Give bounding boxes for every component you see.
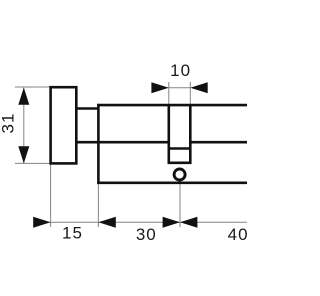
body mid line right of cam <box>190 141 247 144</box>
dimension extension line cam-left <box>168 82 170 105</box>
arrowhead 31 down <box>18 146 29 163</box>
dimension line bottom <box>34 221 247 223</box>
cylinder body bottom edge <box>97 182 247 185</box>
svg-text:10: 10 <box>170 61 191 80</box>
arrowhead 31 up <box>18 88 29 105</box>
dimension extension line cam-right <box>189 82 191 105</box>
fixing screw circle <box>174 169 185 180</box>
arrowhead 10 right (outside, pointing left) <box>190 82 207 93</box>
dimension extension line below body left edge <box>97 183 99 227</box>
thumbturn knob outline <box>51 87 77 163</box>
svg-text:15: 15 <box>62 223 83 242</box>
dimension line 31 vertical <box>23 88 25 164</box>
body mid line left of cam <box>76 141 169 144</box>
neck top edge <box>76 107 98 110</box>
cylinder body left edge <box>97 104 100 184</box>
cam bottom edge <box>168 162 192 165</box>
dimension line 10 <box>169 87 191 89</box>
svg-text:31: 31 <box>0 113 17 134</box>
dimension extension line below cam center <box>179 181 181 227</box>
dimension extension line below knob left edge <box>50 163 52 227</box>
cylinder body top edge <box>97 104 247 107</box>
arrowhead 30 right (pointing right) <box>163 217 180 228</box>
dimension extension line knob-bottom <box>15 162 51 164</box>
arrowhead 10 left (outside, pointing right) <box>151 82 168 93</box>
svg-text:30: 30 <box>136 225 157 244</box>
cam step line <box>168 147 192 150</box>
cam slot right edge <box>189 105 192 164</box>
dimension extension line knob-top <box>15 86 51 88</box>
arrowhead at body-left (pointing left) <box>98 217 115 228</box>
arrowhead 40 left (pointing left) <box>180 217 197 228</box>
svg-text:40: 40 <box>228 225 247 244</box>
arrowhead 15 left (outside, pointing right) <box>33 217 50 228</box>
cam slot left edge <box>168 105 171 164</box>
